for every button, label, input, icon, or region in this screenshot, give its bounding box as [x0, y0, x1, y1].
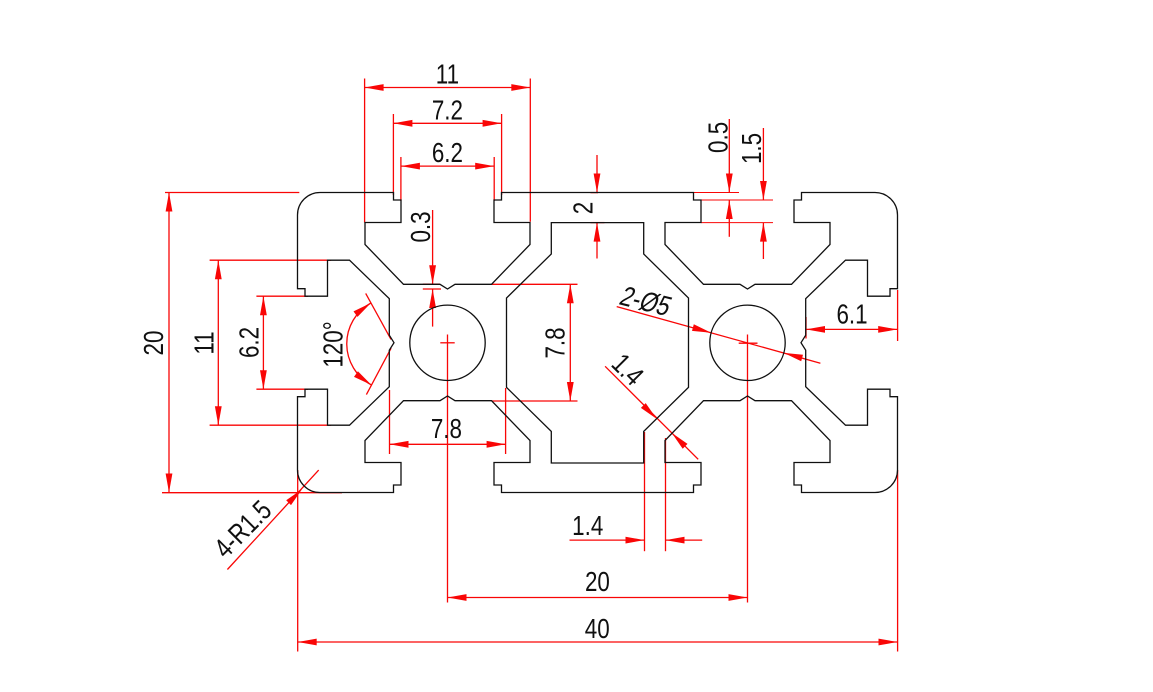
- svg-text:7.8: 7.8: [540, 327, 571, 358]
- svg-text:1.4: 1.4: [572, 511, 603, 542]
- svg-text:6.2: 6.2: [234, 327, 265, 358]
- svg-text:7.8: 7.8: [431, 414, 462, 445]
- svg-text:120°: 120°: [318, 321, 349, 367]
- svg-text:40: 40: [585, 614, 610, 645]
- svg-text:0.3: 0.3: [406, 211, 437, 242]
- svg-text:11: 11: [189, 331, 220, 354]
- svg-text:6.2: 6.2: [432, 138, 463, 169]
- svg-text:2: 2: [568, 202, 599, 214]
- svg-text:0.5: 0.5: [703, 122, 734, 153]
- svg-text:7.2: 7.2: [432, 95, 463, 126]
- svg-text:20: 20: [585, 567, 610, 598]
- svg-text:1.5: 1.5: [737, 133, 768, 164]
- svg-text:11: 11: [436, 59, 459, 90]
- svg-text:6.1: 6.1: [836, 299, 867, 330]
- svg-text:20: 20: [139, 331, 170, 356]
